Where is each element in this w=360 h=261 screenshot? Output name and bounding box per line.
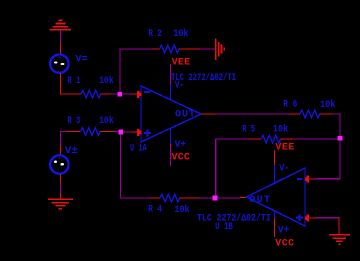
node C junction — [213, 196, 218, 201]
wire node A up to R2 row — [120, 49, 152, 92]
op-amp U1 (A section) — [122, 58, 236, 166]
svg-text:VCC: VCC — [275, 239, 294, 250]
svg-text:R 1: R 1 — [67, 76, 80, 87]
VEE power stub — [170, 64, 172, 84]
wire U2 plus input to ground G3 — [316, 217, 339, 219]
svg-text:10k: 10k — [173, 28, 188, 40]
source V1 — [50, 55, 68, 73]
minus input arrow — [122, 93, 131, 95]
svg-text:10k: 10k — [174, 204, 189, 216]
wire node C vertical and R5 — [216, 139, 249, 196]
minus input arrow (points left) — [309, 178, 316, 180]
node D junction — [338, 136, 343, 141]
svg-text:U 1A: U 1A — [130, 143, 147, 154]
svg-text:R 6: R 6 — [283, 100, 297, 111]
plus input arrow — [123, 131, 131, 133]
plus input arrow (points left) — [309, 217, 316, 219]
svg-text:10k: 10k — [273, 124, 288, 136]
source V2 — [50, 155, 68, 173]
pin labels — [297, 178, 302, 180]
wire V2 col to R3 — [60, 131, 80, 155]
svg-text:R 4: R 4 — [148, 205, 162, 216]
svg-text:VCC: VCC — [172, 153, 190, 164]
svg-text:R 3: R 3 — [67, 116, 80, 127]
svg-text:V±: V± — [65, 146, 78, 157]
svg-text:V+: V+ — [278, 225, 290, 236]
svg-text:VEE: VEE — [172, 58, 191, 69]
ground G4 (rotated, pointing right) — [216, 39, 225, 61]
svg-text:V-: V- — [279, 164, 290, 175]
wire V2 to G2 — [59, 174, 61, 199]
ground G1 (top left, pointing up) — [50, 20, 72, 30]
wire V1 to R1 — [60, 73, 81, 94]
op-amp U2 (B section, mirrored) — [197, 142, 316, 249]
resistor R4 — [150, 197, 160, 199]
resistor R5 — [261, 135, 281, 143]
resistor R3 — [81, 128, 101, 136]
wire G1 to V1 — [59, 30, 61, 54]
resistor R6 — [289, 113, 300, 115]
svg-text:10k: 10k — [320, 99, 336, 111]
svg-text:R 2: R 2 — [149, 29, 162, 40]
svg-text:R 5: R 5 — [242, 124, 255, 135]
svg-text:V=: V= — [76, 55, 88, 66]
ground G2 (pointing down) — [48, 199, 73, 209]
node A junction — [118, 92, 123, 97]
VEE power stub — [274, 150, 276, 165]
svg-text:10k: 10k — [99, 75, 114, 87]
svg-text:OUT: OUT — [175, 109, 195, 120]
svg-text:VEE: VEE — [275, 142, 294, 153]
VCC power stub — [170, 129, 172, 144]
pin labels — [144, 91, 150, 93]
svg-text:V+: V+ — [175, 140, 187, 151]
svg-text:10k: 10k — [99, 115, 114, 127]
wire node C to U2 output — [218, 197, 240, 199]
wire node D down to U2 minus input — [316, 141, 340, 179]
VCC power stub — [274, 211, 276, 218]
ground G3 (pointing down) — [329, 235, 350, 244]
resistor R2 — [152, 48, 160, 50]
wire U1 out to R6 — [201, 113, 215, 115]
svg-text:OUT: OUT — [249, 195, 270, 206]
svg-text:TLC 2272/Δ02/TI: TLC 2272/Δ02/TI — [197, 213, 271, 225]
wire node B down to R4 row — [121, 134, 151, 198]
node B junction — [119, 130, 124, 135]
resistor R1 — [81, 90, 101, 98]
svg-text:V-: V- — [175, 81, 185, 92]
